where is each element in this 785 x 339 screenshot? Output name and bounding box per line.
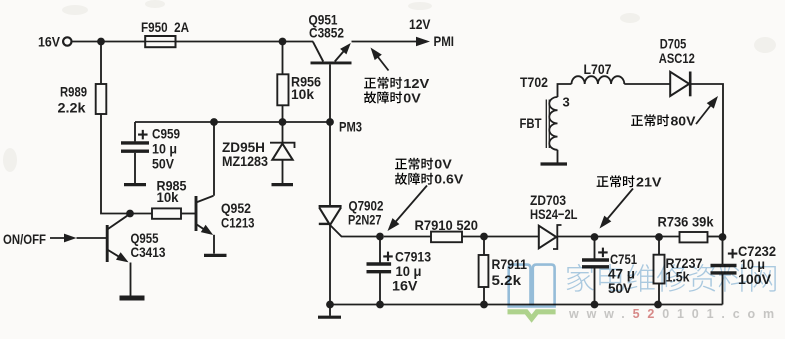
svg-text:HS24−2L: HS24−2L — [530, 206, 578, 222]
wire — [379, 237, 381, 263]
wire 12V output — [352, 41, 418, 43]
arrow ON/OFF — [50, 237, 68, 239]
svg-text:50V: 50V — [152, 156, 175, 172]
node — [480, 301, 488, 309]
zener ZD703 HS24-2L — [530, 192, 578, 249]
wire — [722, 273, 724, 305]
ground Q952 — [204, 254, 227, 257]
wire — [595, 236, 680, 238]
ground Q955 — [120, 296, 145, 301]
transistor Q952 C1213 — [196, 196, 255, 235]
svg-text:16V: 16V — [392, 278, 418, 294]
svg-text:FBT: FBT — [520, 115, 542, 131]
annotation arrow to C751 node — [604, 189, 634, 224]
svg-text:12V: 12V — [403, 76, 429, 91]
node — [654, 301, 662, 309]
svg-text:C3852: C3852 — [309, 25, 344, 41]
svg-text:R989: R989 — [60, 84, 87, 100]
svg-text:10 μ: 10 μ — [152, 141, 177, 157]
diode D705 ASC12 — [659, 35, 695, 96]
arrow to PMI — [416, 37, 430, 47]
wire — [690, 84, 723, 237]
annotation text 正常时12V / 故障时0V — [364, 76, 430, 106]
wire — [77, 237, 107, 239]
resistor R7237 1.5k — [654, 255, 703, 285]
resistor R7911 5.2k — [479, 255, 528, 288]
resistor R7910 520 — [415, 217, 479, 242]
wire — [379, 272, 381, 304]
thyristor Q7902 P2N27 — [319, 197, 384, 227]
annotation 正常时80V — [631, 113, 696, 128]
svg-text:80V: 80V — [671, 113, 696, 128]
node R7237 top — [655, 233, 663, 241]
ground FBT — [541, 162, 568, 165]
wire — [557, 150, 559, 163]
node — [591, 301, 599, 309]
watermark book icon — [509, 265, 555, 307]
node 16V rail junction — [97, 38, 105, 46]
svg-text:5.2k: 5.2k — [492, 272, 522, 288]
svg-text:C3413: C3413 — [131, 244, 166, 260]
wire — [384, 236, 431, 238]
capacitor C959 10u 50V — [121, 126, 180, 172]
wire — [558, 84, 572, 97]
wire — [282, 45, 284, 74]
svg-text:100V: 100V — [738, 271, 772, 287]
wire — [462, 236, 538, 238]
wire — [101, 114, 152, 214]
wire — [134, 122, 136, 141]
wire — [594, 268, 596, 304]
wire — [282, 105, 284, 122]
svg-text:T702: T702 — [520, 74, 548, 90]
capacitor C7232 10u 100V — [711, 243, 777, 287]
svg-text:C959: C959 — [152, 126, 180, 142]
capacitor C7913 10u 16V — [367, 249, 432, 294]
node C751 top — [591, 233, 599, 241]
svg-text:L707: L707 — [584, 61, 612, 77]
svg-text:3: 3 — [563, 95, 570, 110]
wire — [72, 41, 146, 43]
svg-text:10 μ: 10 μ — [740, 256, 765, 272]
svg-text:ON/OFF: ON/OFF — [3, 231, 46, 247]
wire — [624, 83, 670, 85]
node Q951 collector branch — [279, 38, 287, 46]
transistor Q955 C3413 — [107, 215, 165, 263]
wire Q951 base — [329, 64, 331, 122]
wire Q952 emitter — [213, 235, 215, 254]
scan smudges — [3, 0, 776, 172]
terminal 16V — [38, 34, 72, 50]
annotation arrow Q951 emitter — [374, 51, 389, 70]
ground rail — [329, 305, 331, 316]
node gate — [376, 233, 384, 241]
svg-text:1.5k: 1.5k — [666, 269, 690, 285]
wire — [658, 284, 660, 305]
wire SCR anode — [329, 122, 331, 205]
ground C959 — [124, 183, 146, 186]
node R7911 top — [480, 233, 488, 241]
svg-text:10k: 10k — [291, 86, 314, 102]
svg-text:R7910 520: R7910 520 — [415, 217, 479, 233]
zener ZD95H MZ1283 — [222, 122, 295, 183]
wire SCR cathode — [329, 225, 331, 305]
inductor L707 — [572, 61, 625, 84]
svg-text:12V: 12V — [409, 16, 431, 32]
svg-text:MZ1283: MZ1283 — [222, 153, 268, 169]
wire — [134, 153, 136, 183]
svg-text:R736 39k: R736 39k — [658, 213, 714, 229]
svg-text:ASC12: ASC12 — [659, 50, 695, 66]
wire Q7902 gate — [331, 226, 377, 237]
node PM3 — [326, 118, 334, 126]
node C7232 top — [719, 233, 727, 241]
resistor R985 10k — [152, 178, 187, 219]
svg-text:P2N27: P2N27 — [348, 212, 382, 228]
wire — [558, 236, 595, 238]
wire — [100, 42, 102, 85]
svg-text:2.2k: 2.2k — [58, 100, 86, 116]
svg-text:16V: 16V — [38, 34, 61, 50]
wire — [594, 237, 596, 259]
fuse F950 2A — [141, 19, 189, 47]
svg-text:21V: 21V — [636, 174, 662, 189]
wire — [722, 237, 724, 264]
resistor R736 39k — [658, 213, 714, 242]
node — [279, 118, 287, 126]
wire — [181, 213, 195, 215]
svg-text:PM3: PM3 — [339, 119, 362, 135]
annotation 正常时21V — [597, 174, 662, 189]
node — [376, 301, 384, 309]
capacitor C751 47u 50V — [582, 248, 637, 296]
watermark text 家电维修资料网 — [567, 264, 776, 292]
wire — [483, 287, 485, 305]
svg-text:C1213: C1213 — [221, 215, 255, 231]
wire — [483, 237, 485, 256]
wire — [176, 41, 314, 43]
resistor R956 10k — [277, 74, 321, 106]
svg-text:10k: 10k — [157, 189, 179, 205]
wire — [708, 236, 724, 238]
transistor Q951 C3852 — [309, 12, 352, 63]
wire ground rail — [330, 304, 723, 306]
svg-text:www.520101.com: www.520101.com — [568, 307, 782, 321]
wire — [658, 237, 660, 255]
node — [210, 118, 218, 126]
wire Q952 collector — [213, 122, 215, 196]
svg-text:F950 2A: F950 2A — [141, 19, 189, 35]
node Q955 collector junction — [126, 210, 134, 218]
transformer T702 FBT winding pin3 — [520, 95, 570, 150]
node — [326, 301, 334, 309]
svg-text:0.6V: 0.6V — [434, 172, 463, 187]
resistor R989 2.2k — [58, 84, 107, 116]
annotation 正常时0V / 故障时0.6V — [395, 157, 464, 187]
annotation arrow to gate node — [392, 186, 428, 227]
wire Q955 emitter — [130, 263, 132, 296]
ground ZD95H — [272, 183, 294, 186]
svg-text:0V: 0V — [434, 157, 452, 172]
wire PM3 rail — [135, 121, 330, 123]
svg-text:PMI: PMI — [434, 33, 455, 49]
annotation arrow to D705 output — [696, 101, 715, 125]
svg-text:0V: 0V — [403, 90, 421, 105]
